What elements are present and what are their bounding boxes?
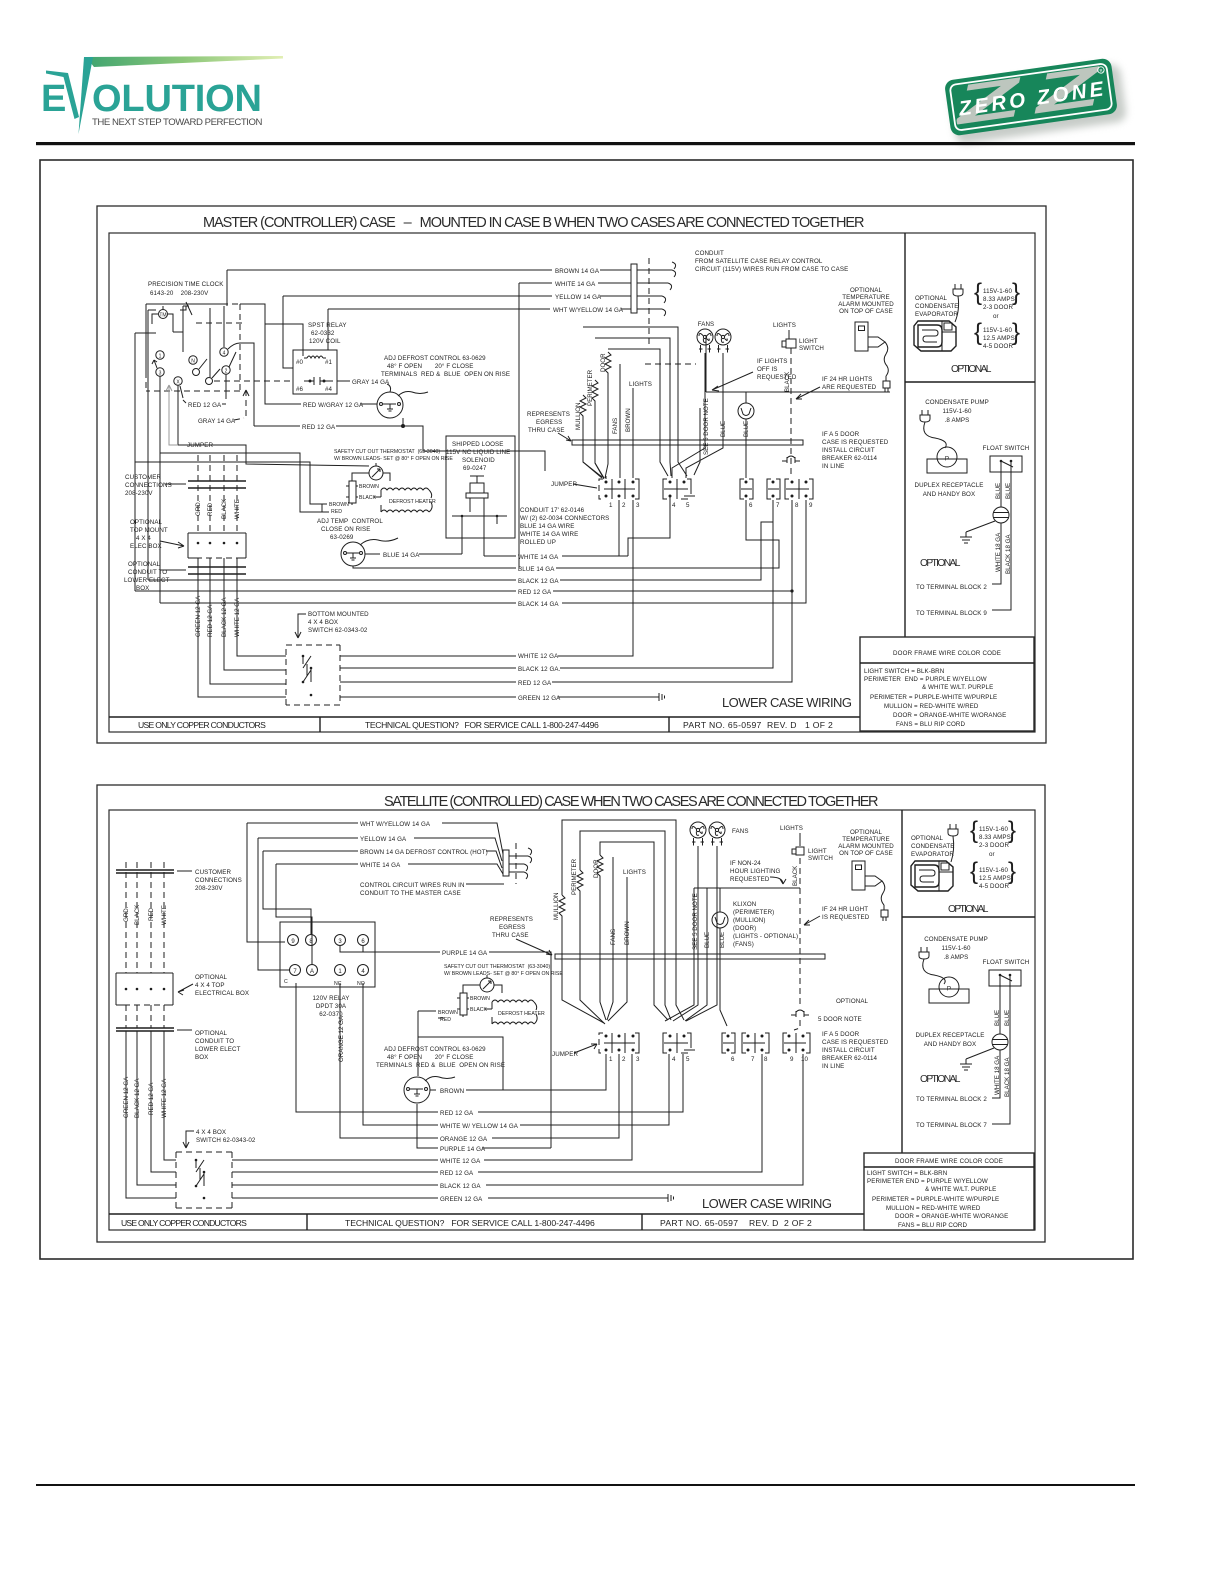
wire fans feed — [583, 327, 687, 476]
wire black 12 ga row — [148, 522, 773, 580]
svg-text:REPRESENTS: REPRESENTS — [527, 411, 570, 418]
plug P3 — [948, 824, 958, 836]
svg-text:THRU CASE: THRU CASE — [492, 932, 529, 939]
svg-text:LIGHTS: LIGHTS — [629, 381, 652, 388]
thermostat loop wires sat — [463, 985, 502, 993]
red w/gray 12 ga row — [265, 323, 301, 404]
svg-text:4: 4 — [672, 1056, 676, 1063]
purple 14 ga row — [340, 946, 551, 1148]
svg-text:4 X 4 BOX: 4 X 4 BOX — [196, 1129, 226, 1136]
svg-text:NC: NC — [334, 981, 342, 987]
svg-text:C: C — [284, 979, 288, 985]
svg-text:FLOAT SWITCH: FLOAT SWITCH — [983, 445, 1030, 452]
svg-text:WHITE 12 GA: WHITE 12 GA — [440, 1158, 481, 1165]
svg-text:CONDUIT 17' 62-0146: CONDUIT 17' 62-0146 — [520, 507, 585, 514]
customer connection bar — [188, 481, 246, 488]
top mount elec box sat — [116, 973, 173, 1005]
svg-text:120V RELAY: 120V RELAY — [312, 995, 349, 1002]
svg-text:REQUESTED: REQUESTED — [757, 374, 797, 381]
svg-text:RED: RED — [148, 907, 155, 921]
svg-text:PART NO. 65-0597 REV. D 2: PART NO. 65-0597 REV. D 2 OF 2 — [660, 1218, 812, 1228]
svg-text:208-230V: 208-230V — [125, 490, 153, 497]
svg-text:69-0247: 69-0247 — [463, 465, 487, 472]
svg-text:TEMPERATURE: TEMPERATURE — [842, 294, 889, 301]
svg-text:MULLION: MULLION — [575, 402, 582, 430]
svg-text:IF NON-24: IF NON-24 — [730, 860, 761, 867]
svg-text:FLOAT SWITCH: FLOAT SWITCH — [983, 959, 1030, 966]
svg-text:CUSTOMER: CUSTOMER — [195, 869, 232, 876]
thermostat loop wires — [352, 473, 390, 481]
svg-text:BLACK: BLACK — [470, 1007, 488, 1013]
svg-text:RED: RED — [331, 509, 342, 515]
svg-text:TO TERMINAL BLOCK 2: TO TERMINAL BLOCK 2 — [916, 584, 987, 591]
svg-text:RED: RED — [207, 502, 214, 516]
breaker in dashed line — [782, 456, 800, 463]
safety thermostat ST1 — [369, 466, 383, 480]
svg-text:1: 1 — [609, 1056, 613, 1063]
red 12 ga label clock — [180, 386, 186, 403]
svg-text:PERIMETER: PERIMETER — [571, 858, 578, 895]
svg-text:4 X 4 TOP: 4 X 4 TOP — [195, 982, 225, 989]
svg-text:{: { — [970, 858, 978, 885]
svg-text:LOWER CASE WIRING: LOWER CASE WIRING — [702, 1196, 833, 1211]
relay circle 3 — [335, 935, 346, 946]
bottom page rule — [36, 1484, 1135, 1486]
svg-text:GREEN 12 GA: GREEN 12 GA — [440, 1196, 483, 1203]
svg-text:(LIGHTS - OPTIONAL): (LIGHTS - OPTIONAL) — [733, 933, 798, 940]
wire float switch blue leads — [1000, 472, 1002, 507]
svg-text:TECHNICAL QUESTION? FOR SERV: TECHNICAL QUESTION? FOR SERVICE CALL 1-8… — [365, 720, 599, 730]
svg-text:KLIXON: KLIXON — [733, 901, 756, 908]
wire blue 14 ga row — [353, 500, 779, 568]
fan M2 — [715, 329, 731, 353]
terminal block 6 sat — [722, 1033, 735, 1063]
svg-text:#4: #4 — [325, 386, 333, 393]
svg-text:4 X 4 BOX: 4 X 4 BOX — [308, 619, 338, 626]
condensate evaporator icon sat — [911, 861, 953, 891]
klixon lamp K2 — [738, 403, 754, 419]
svg-text:OPTIONAL: OPTIONAL — [836, 998, 869, 1005]
svg-text:BROWN: BROWN — [359, 484, 379, 490]
master optional evaporator section divider — [905, 381, 1035, 383]
terminal block 4-5 — [663, 479, 695, 509]
svg-text:(MULLION): (MULLION) — [733, 917, 766, 924]
svg-text:PURPLE 14 GA: PURPLE 14 GA — [440, 1146, 486, 1153]
svg-text:AND HANDY BOX: AND HANDY BOX — [923, 491, 975, 498]
svg-text:IF LIGHTS: IF LIGHTS — [757, 358, 787, 365]
svg-text:6: 6 — [731, 1056, 735, 1063]
wire white 14 ga sat — [276, 864, 503, 874]
svg-text:GRD.: GRD. — [123, 906, 130, 922]
svg-text:CONDENSATE: CONDENSATE — [915, 303, 959, 310]
svg-text:SOLENOID: SOLENOID — [462, 457, 495, 464]
svg-text:.8 AMPS: .8 AMPS — [945, 417, 970, 424]
svg-text:ARE REQUESTED: ARE REQUESTED — [822, 384, 877, 391]
svg-text:WHITE 14 GA: WHITE 14 GA — [518, 554, 559, 561]
wire mullion feed dashed — [645, 363, 696, 365]
customer dashed drops — [198, 455, 237, 533]
svg-text:GRAY 14 GA: GRAY 14 GA — [352, 379, 390, 386]
svg-text:LIGHT: LIGHT — [799, 338, 818, 345]
wire white 12 ga row sat — [232, 1054, 632, 1160]
svg-text:TOP MOUNT: TOP MOUNT — [130, 527, 168, 534]
svg-text:RED 12 GA: RED 12 GA — [440, 1110, 474, 1117]
solenoid box — [446, 436, 515, 538]
svg-text:115V-1-60: 115V-1-60 — [942, 945, 971, 952]
svg-text:DPDT 30A: DPDT 30A — [316, 1003, 347, 1010]
express bar sat — [555, 954, 825, 959]
fan drop wires sat — [673, 846, 717, 1021]
svg-text:OPTIONAL: OPTIONAL — [850, 287, 883, 294]
svg-text:CONDUIT: CONDUIT — [695, 250, 724, 257]
clock internal wires — [152, 306, 183, 352]
svg-text:BOX: BOX — [195, 1054, 208, 1061]
svg-text:EGRESS: EGRESS — [536, 419, 562, 426]
wire clock 4 to red bus — [228, 343, 254, 426]
wire stat loop left — [178, 445, 369, 466]
svg-text:DOOR = ORANGE-WHITE W/ORANGE: DOOR = ORANGE-WHITE W/ORANGE — [893, 712, 1006, 719]
wire plug to evaporator — [955, 296, 959, 322]
wire brown 14 ga defrost sat — [263, 851, 502, 868]
temperature alarm TA1 — [855, 322, 868, 351]
svg-text:BLACK 12 GA: BLACK 12 GA — [440, 1183, 481, 1190]
svg-text:CONDUIT TO THE MASTER CASE: CONDUIT TO THE MASTER CASE — [360, 890, 461, 897]
svg-text:MULLION = RED-WHITE W/RED: MULLION = RED-WHITE W/RED — [886, 1205, 981, 1212]
svg-text:GREEN 12 GA: GREEN 12 GA — [518, 695, 561, 702]
svg-text:SAFETY CUT OUT THERMOSTAT (63: SAFETY CUT OUT THERMOSTAT (63-3040) — [444, 964, 550, 970]
svg-text:BROWN: BROWN — [470, 996, 490, 1002]
svg-text:8: 8 — [764, 1056, 768, 1063]
svg-text:12.5 AMPS: 12.5 AMPS — [979, 875, 1011, 882]
svg-text:DOOR FRAME WIRE COLOR CODE: DOOR FRAME WIRE COLOR CODE — [895, 1158, 1003, 1165]
svg-text:LIGHT SWITCH = BLK-BRN: LIGHT SWITCH = BLK-BRN — [867, 1170, 947, 1177]
relay circle 1 — [335, 965, 346, 976]
defrost control DC2 — [404, 1077, 430, 1103]
SPST relay K1 box — [293, 350, 337, 394]
svg-text:LOWER ELECT: LOWER ELECT — [195, 1046, 241, 1053]
switch contacts SW2 — [196, 1160, 204, 1186]
ground G2 — [960, 1059, 972, 1070]
svg-text:8.33 AMPS: 8.33 AMPS — [979, 834, 1011, 841]
svg-text:BLACK 18 GA: BLACK 18 GA — [1004, 1057, 1011, 1097]
terminal block 7 — [767, 479, 780, 509]
heater loop to defrost control — [417, 1011, 419, 1076]
top mount elec box — [188, 533, 246, 558]
clock contact 1 — [156, 351, 164, 359]
svg-text:PERIMETER = PURPLE-WHITE W/PUR: PERIMETER = PURPLE-WHITE W/PURPLE — [870, 694, 997, 701]
page outer border — [40, 160, 1133, 1259]
terminal block 1-3 sat — [599, 1033, 640, 1063]
svg-text:BOTTOM MOUNTED: BOTTOM MOUNTED — [308, 611, 369, 618]
svg-text:IF A 5 DOOR: IF A 5 DOOR — [822, 431, 860, 438]
svg-text:BROWN 14 GA DEFROST CONTROL (H: BROWN 14 GA DEFROST CONTROL (HOT) — [360, 849, 488, 856]
satellite footer row — [109, 1214, 864, 1230]
relay coil — [304, 356, 326, 358]
svg-text:RED W/GRAY 12 GA: RED W/GRAY 12 GA — [303, 402, 364, 409]
svg-text:BREAKER 62-0114: BREAKER 62-0114 — [822, 455, 877, 462]
svg-text:SATELLITE (CONTROLLED) CASE WH: SATELLITE (CONTROLLED) CASE WHEN TWO CAS… — [384, 794, 880, 810]
svg-text:10: 10 — [801, 1056, 809, 1063]
svg-text:48° F OPEN 20° F CLOSE: 48° F OPEN 20° F CLOSE — [387, 1054, 474, 1061]
pump cord wire — [924, 422, 947, 448]
header rule — [36, 142, 1135, 145]
svg-text:IF 24 HR LIGHTS: IF 24 HR LIGHTS — [822, 376, 872, 383]
svg-text:RED 12 GA: RED 12 GA — [440, 1170, 474, 1177]
svg-text:DUPLEX RECEPTACLE: DUPLEX RECEPTACLE — [916, 1032, 985, 1039]
bottom switch box — [286, 645, 340, 705]
svg-text:GREEN 12 GA: GREEN 12 GA — [195, 595, 202, 637]
clock contact 3 — [156, 368, 164, 376]
svg-text:SEE 5 DOOR NOTE: SEE 5 DOOR NOTE — [703, 398, 710, 455]
svg-text:WHT W/YELLOW 14 GA: WHT W/YELLOW 14 GA — [360, 821, 431, 828]
svg-text:THRU CASE: THRU CASE — [528, 427, 565, 434]
wire hooks at conduit sat — [509, 856, 528, 872]
svg-text:ADJ DEFROST CONTROL 63-0629: ADJ DEFROST CONTROL 63-0629 — [384, 355, 486, 362]
svg-text:W/ BROWN LEADS- SET @ 80° F OP: W/ BROWN LEADS- SET @ 80° F OPEN ON RISE — [334, 456, 453, 462]
wire white 18 ga sat — [992, 1050, 1000, 1098]
wire green 12 ga row sat — [232, 1197, 668, 1199]
relay circle A — [307, 965, 318, 976]
svg-text:3: 3 — [636, 1056, 640, 1063]
clock switch blade a — [199, 359, 207, 369]
wire left bus vertical — [135, 333, 156, 462]
svg-text:7: 7 — [751, 1056, 755, 1063]
svg-text:115V-1-60: 115V-1-60 — [943, 408, 972, 415]
svg-text:FROM SATELLITE CASE RELAY CONT: FROM SATELLITE CASE RELAY CONTROL — [695, 258, 823, 265]
svg-text:BLUE 14 GA: BLUE 14 GA — [383, 552, 420, 559]
brown connector block — [349, 481, 356, 503]
svg-text:& WHITE W/LT. PURPLE: & WHITE W/LT. PURPLE — [922, 684, 993, 691]
svg-text:{: { — [970, 817, 978, 844]
svg-text:TO TERMINAL BLOCK 9: TO TERMINAL BLOCK 9 — [916, 610, 987, 617]
relay circle 4 — [358, 965, 369, 976]
svg-text:.8 AMPS: .8 AMPS — [944, 954, 969, 961]
svg-text:WHT W/YELLOW 14 GA: WHT W/YELLOW 14 GA — [553, 307, 624, 314]
svg-text:FANS: FANS — [698, 321, 715, 328]
satellite inner box — [109, 810, 1035, 1230]
wire white w/yellow row sat — [363, 983, 669, 1125]
dashed 24hr wire — [790, 348, 792, 478]
svg-text:CONNECTIONS: CONNECTIONS — [195, 877, 242, 884]
converging wires into terminal 1 — [583, 462, 604, 479]
alarm plug sat — [881, 905, 888, 921]
defrost control DC1 — [377, 392, 403, 418]
plug P1 — [953, 284, 963, 296]
terminal block 9-10 sat — [783, 1033, 810, 1063]
resistor perimeter — [592, 380, 604, 478]
svg-text:120V COIL: 120V COIL — [309, 338, 341, 345]
svg-text:WHITE 12 GA: WHITE 12 GA — [518, 653, 559, 660]
customer connections bar sat — [116, 870, 174, 873]
svg-text:PERIMETER: PERIMETER — [587, 369, 594, 406]
conductor drops to switch sat — [126, 1031, 176, 1198]
svg-text:115V NC LIQUID LINE: 115V NC LIQUID LINE — [446, 449, 510, 456]
svg-text:BLUE: BLUE — [719, 932, 726, 948]
svg-text:(PERIMETER): (PERIMETER) — [733, 909, 774, 916]
svg-text:{: { — [974, 319, 982, 346]
svg-text:BROWN: BROWN — [438, 1010, 458, 1016]
svg-text:W/ (2) 62-0034 CONNECTORS: W/ (2) 62-0034 CONNECTORS — [520, 515, 609, 522]
alarm plug — [883, 376, 890, 392]
svg-text:SWITCH 62-0343-02: SWITCH 62-0343-02 — [308, 627, 368, 634]
svg-text:EVAPORATOR: EVAPORATOR — [915, 311, 958, 318]
svg-text:6143-20 208-230V: 6143-20 208-230V — [150, 290, 209, 297]
white 12 ga bottom label — [516, 651, 558, 659]
svg-text:PART NO. 65-0597 REV. D 1 O: PART NO. 65-0597 REV. D 1 OF 2 — [683, 720, 833, 730]
svg-text:ELECTRICAL BOX: ELECTRICAL BOX — [195, 990, 249, 997]
resistor perimeter sat — [577, 870, 605, 1024]
relay circle 6 — [358, 935, 369, 946]
clock contact X — [174, 377, 182, 385]
svg-text:2-3 DOOR: 2-3 DOOR — [979, 842, 1009, 849]
wire blue1 sat — [685, 888, 707, 1021]
satellite diagram outer box — [97, 785, 1045, 1242]
svg-text:GRD.: GRD. — [195, 500, 202, 516]
svg-text:RED 12 GA: RED 12 GA — [518, 680, 552, 687]
svg-text:DEFROST HEATER: DEFROST HEATER — [498, 1011, 545, 1017]
fan drop wires — [672, 353, 723, 478]
alarm cord sat — [881, 881, 885, 905]
svg-text:CASE IS REQUESTED: CASE IS REQUESTED — [822, 439, 889, 446]
svg-text:(FANS): (FANS) — [733, 941, 754, 948]
svg-text:OPTIONAL: OPTIONAL — [948, 904, 989, 915]
svg-text:TO TERMINAL BLOCK 7: TO TERMINAL BLOCK 7 — [916, 1122, 987, 1129]
wire hooks at conduit — [637, 270, 672, 309]
svg-text:BLUE: BLUE — [743, 421, 750, 437]
svg-text:PURPLE 14 GA: PURPLE 14 GA — [442, 950, 488, 957]
clock dashed row y381 — [214, 380, 294, 382]
timer motor TM — [159, 310, 168, 319]
light switch LS2 — [792, 847, 804, 855]
svg-text:TECHNICAL QUESTION? FOR SERV: TECHNICAL QUESTION? FOR SERVICE CALL 1-8… — [345, 1218, 595, 1228]
relay circle 8 — [306, 935, 317, 946]
svg-text:NO: NO — [357, 981, 365, 987]
svg-text:BLACK 12 GA: BLACK 12 GA — [134, 1078, 141, 1118]
svg-text:9: 9 — [809, 502, 813, 509]
svg-text:WHITE W/ YELLOW 14 GA: WHITE W/ YELLOW 14 GA — [440, 1123, 519, 1130]
wire defrost bottom to red row — [402, 418, 404, 426]
svg-text:OPTIONAL: OPTIONAL — [951, 364, 992, 375]
svg-text:WHITE 14 GA: WHITE 14 GA — [555, 281, 596, 288]
lower conduit bar sat — [116, 1028, 174, 1031]
plug P2 — [920, 410, 930, 422]
svg-text:EGRESS: EGRESS — [499, 924, 525, 931]
resistor mullion — [580, 395, 602, 477]
conduit connector block — [631, 264, 637, 313]
wire purple 14 ga row sat — [417, 1104, 551, 1148]
wire receptacle to ground — [966, 521, 995, 532]
wire perimeter feed sat — [580, 831, 671, 1020]
svg-text:#6: #6 — [296, 386, 304, 393]
wire clock 2 down — [225, 374, 227, 399]
svg-text:5 DOOR NOTE: 5 DOOR NOTE — [818, 1016, 862, 1023]
svg-text:WHITE 14 GA WIRE: WHITE 14 GA WIRE — [520, 531, 578, 538]
svg-text:DUPLEX RECEPTACLE: DUPLEX RECEPTACLE — [915, 482, 984, 489]
svg-text:ROLLED UP: ROLLED UP — [520, 539, 556, 546]
svg-text:USE ONLY COPPER CONDUCTORS: USE ONLY COPPER CONDUCTORS — [121, 1218, 247, 1228]
terminal block 8-9 — [785, 479, 813, 509]
svg-text:BLACK: BLACK — [221, 498, 228, 519]
clock contact N — [189, 356, 197, 364]
svg-text:}: } — [1008, 858, 1016, 885]
wire clock X down — [177, 385, 179, 445]
clock contact 2 — [222, 366, 230, 374]
svg-text:CLOSE ON RISE: CLOSE ON RISE — [321, 526, 370, 533]
klixon K4 — [712, 912, 728, 928]
svg-text:62-0332: 62-0332 — [311, 330, 335, 337]
elec box leader arrow — [160, 541, 184, 548]
svg-text:YELLOW 14 GA: YELLOW 14 GA — [555, 294, 602, 301]
svg-text:DOOR FRAME WIRE COLOR CODE: DOOR FRAME WIRE COLOR CODE — [893, 650, 1001, 657]
wire red 12 ga row — [135, 590, 792, 592]
blue 14 ga label — [365, 553, 380, 555]
svg-text:115V-1-60: 115V-1-60 — [979, 867, 1008, 874]
wires out of switch box — [340, 500, 792, 697]
brown connector block sat — [460, 993, 467, 1015]
gray 14 ga label relay — [337, 380, 350, 382]
svg-text:SHIPPED LOOSE: SHIPPED LOOSE — [452, 441, 504, 448]
svg-text:OPTIONAL: OPTIONAL — [128, 561, 161, 568]
clock pole b — [206, 378, 213, 385]
svg-text:THE NEXT STEP TOWARD PERFECTIO: THE NEXT STEP TOWARD PERFECTION — [92, 117, 263, 128]
svg-text:}: } — [1012, 319, 1020, 346]
master inner box — [109, 233, 1035, 732]
svg-text:#0: #0 — [296, 359, 304, 366]
svg-text:CONDUIT TO: CONDUIT TO — [195, 1038, 234, 1045]
svg-text:4-5 DOOR: 4-5 DOOR — [983, 343, 1013, 350]
lower conduit bar — [188, 567, 246, 574]
svg-text:8: 8 — [795, 502, 799, 509]
wire y888 sat — [694, 887, 800, 889]
wire black 14 ga row — [160, 500, 806, 603]
svg-text:ON TOP OF CASE: ON TOP OF CASE — [839, 850, 893, 857]
svg-text:}: } — [1012, 279, 1020, 306]
master diagram outer box — [97, 206, 1046, 743]
svg-text:GREEN 12 GA: GREEN 12 GA — [123, 1076, 130, 1118]
svg-text:EVAPORATOR: EVAPORATOR — [911, 851, 954, 858]
fan M3 — [690, 822, 706, 846]
wire term4 down — [628, 496, 670, 556]
svg-text:TM: TM — [159, 313, 166, 319]
duplex receptacle R1 — [993, 507, 1009, 523]
ground at green wire — [659, 693, 665, 701]
svg-text:2: 2 — [225, 369, 228, 375]
svg-text:BLACK 12 GA.: BLACK 12 GA. — [518, 666, 561, 673]
svg-text:IS REQUESTED: IS REQUESTED — [822, 914, 870, 921]
resistor door sat — [597, 855, 606, 1020]
wire yellow 14 ga — [283, 295, 631, 297]
wire mullion feed sat — [562, 820, 684, 1020]
svg-text:2: 2 — [622, 502, 626, 509]
svg-text:BLUE 14 GA: BLUE 14 GA — [518, 566, 555, 573]
dashed 24hr wire sat — [794, 858, 800, 1030]
breaker sat — [791, 1010, 809, 1017]
wire white 14 ga — [519, 282, 631, 284]
svg-text:OLUTION: OLUTION — [92, 78, 263, 120]
wire receptacle to ground sat — [966, 1048, 994, 1059]
wire wht w/yellow 14 ga — [328, 308, 631, 310]
terminal block 4-5 sat — [663, 1033, 695, 1063]
wire y324 to relay — [240, 304, 303, 356]
svg-text:OPTIONAL: OPTIONAL — [920, 558, 961, 569]
wire black 18 ga sat — [992, 986, 1010, 1124]
svg-text:BROWN 14 GA: BROWN 14 GA — [555, 268, 600, 275]
svg-text:ORANGE 12 GA: ORANGE 12 GA — [338, 1015, 345, 1062]
svg-text:or: or — [993, 313, 999, 320]
svg-text:48° F OPEN 20° F CLOSE: 48° F OPEN 20° F CLOSE — [387, 363, 474, 370]
svg-text:BLACK 12 GA: BLACK 12 GA — [518, 578, 559, 585]
svg-text:8.33 AMPS: 8.33 AMPS — [983, 296, 1015, 303]
